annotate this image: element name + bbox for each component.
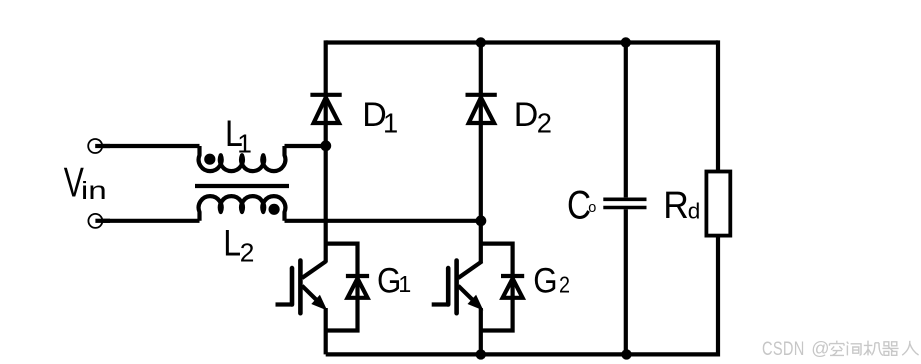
svg-text:1: 1: [237, 129, 252, 159]
IGBT G1 module loop: [326, 244, 358, 355]
junction dot top rail D2: [476, 37, 486, 47]
polarity dot L2: [269, 204, 280, 215]
wire D2 branch vertical: [479, 40, 483, 262]
ideograph jian: [847, 342, 861, 356]
wire Co top lead: [624, 43, 628, 198]
label G2: [533, 262, 570, 301]
node A junction dot: [320, 140, 331, 151]
wire bottom rail: [326, 352, 718, 356]
label Vin: [64, 159, 107, 206]
svg-text:2: 2: [537, 108, 552, 139]
inductor L1 winding: [199, 146, 286, 171]
input terminal bottom: [88, 214, 102, 228]
polarity dot L1: [204, 154, 215, 165]
arrow of G1 emitter: [313, 296, 326, 309]
watermark CJK glyphs: [830, 341, 919, 356]
wire L1 to node A: [285, 144, 328, 148]
input terminal top: [88, 139, 102, 153]
wire Vin top lead: [95, 144, 199, 148]
inductor L2 winding: [199, 196, 286, 221]
label L1: [225, 112, 252, 158]
junction dot top rail Co: [621, 37, 631, 47]
wire top rail: [326, 40, 718, 44]
wire bottom terminal stub: [95, 219, 110, 223]
svg-text:2: 2: [240, 237, 255, 267]
capacitor Co plates: [603, 199, 646, 207]
svg-text:G: G: [533, 262, 557, 301]
freewheel diode of G1: [346, 276, 369, 298]
svg-text:D: D: [514, 96, 539, 134]
label D2: [514, 96, 552, 139]
svg-text:@: @: [811, 339, 829, 359]
wire Co bottom lead: [624, 209, 628, 354]
resistor Rd box: [706, 172, 730, 236]
transistor G1 (IGBT): [276, 261, 326, 314]
transistor G2 (IGBT): [432, 261, 482, 314]
ideograph kong: [830, 341, 845, 356]
ideograph ji: [864, 341, 883, 356]
IGBT G2 module loop: [481, 244, 513, 355]
node B junction dot: [476, 215, 487, 226]
wire top terminal stub: [95, 144, 110, 148]
svg-text:1: 1: [383, 108, 398, 139]
svg-text:o: o: [588, 200, 596, 216]
svg-text:1: 1: [398, 271, 411, 297]
label D1: [362, 96, 398, 139]
label G1: [377, 262, 411, 301]
svg-text:2: 2: [559, 271, 570, 298]
wire L2 to node B: [285, 219, 484, 223]
label Rd: [663, 184, 700, 226]
label L2: [223, 222, 254, 267]
svg-text:R: R: [663, 184, 689, 226]
arrow of G2 emitter: [469, 296, 482, 309]
label Co: [567, 183, 596, 228]
transformer core bar: [195, 184, 289, 188]
svg-text:in: in: [81, 177, 107, 205]
freewheel diode of G2: [501, 276, 524, 298]
diode D2: [466, 95, 497, 123]
junction dot bottom rail Co: [621, 349, 631, 359]
ideograph ren: [902, 341, 918, 355]
wire Vin bottom lead: [95, 219, 199, 223]
svg-text:CSDN: CSDN: [762, 337, 805, 360]
diode D1: [310, 95, 341, 123]
wire Rd top lead: [716, 40, 720, 171]
wire D1 branch vertical: [324, 40, 328, 262]
ideograph qi: [882, 342, 898, 356]
wire Rd bottom lead: [716, 236, 720, 357]
junction dot bottom rail G2: [476, 349, 486, 359]
svg-text:L: L: [223, 222, 241, 264]
svg-text:d: d: [688, 198, 701, 223]
